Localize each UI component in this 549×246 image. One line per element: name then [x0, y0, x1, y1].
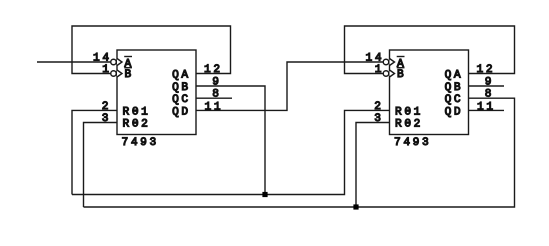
svg-text:B: B [397, 69, 406, 81]
wire: U1 R01 (pin 2) with drop to reset bus 1 [72, 110, 117, 194]
svg-text:QA: QA [445, 70, 464, 82]
svg-text:QD: QD [172, 106, 191, 118]
svg-text:1: 1 [375, 64, 384, 76]
svg-text:QC: QC [445, 94, 464, 106]
junction dot: U1 QB to reset bus 1 [262, 192, 267, 197]
clock wedge for A input of U1 [117, 59, 122, 66]
wire: U2 R02 (pin 3) drop to reset bus 2 [356, 123, 390, 208]
svg-text:R01: R01 [123, 106, 151, 118]
svg-text:8: 8 [485, 89, 494, 101]
svg-text:14: 14 [93, 52, 112, 64]
wire: external clock input to U1 pin 14 (A) [37, 61, 111, 63]
svg-text:12: 12 [204, 64, 223, 76]
svg-text:14: 14 [366, 52, 385, 64]
clock wedge for A input of U2 [390, 59, 395, 66]
svg-text:11: 11 [477, 102, 496, 114]
svg-text:R01: R01 [395, 106, 423, 118]
svg-text:1: 1 [102, 64, 111, 76]
svg-text:B: B [125, 69, 134, 81]
inverting bubble on pin 1 (B input) of U2 [383, 71, 389, 77]
svg-text:12: 12 [477, 64, 496, 76]
wire: U1 QA (pin 12) feedback loop over the top to U1 pin 1 (B) [72, 26, 231, 74]
svg-text:11: 11 [205, 102, 224, 114]
inverting bubble on pin 1 (B input) of U1 [111, 71, 117, 77]
inverting bubble on pin 14 (A input) of U1 [111, 59, 117, 65]
wire: U2 QD (pin 11) stub [469, 109, 505, 111]
svg-text:QA: QA [172, 70, 191, 82]
wire: U1 QC (pin 8) stub [196, 97, 232, 99]
counter IC U2 (7493) body [390, 50, 469, 135]
svg-text:QB: QB [445, 82, 464, 94]
svg-text:R02: R02 [123, 118, 151, 130]
junction dot: U2 R02 to reset bus 2 [353, 204, 358, 209]
svg-text:QB: QB [172, 82, 191, 94]
wire: reset bus 1 joining U1 R01, U1 QB and U2 R01 [72, 110, 390, 194]
svg-text:3: 3 [102, 113, 111, 125]
svg-text:R02: R02 [395, 118, 423, 130]
counter IC U1 (7493) body [117, 50, 196, 135]
inverting bubble on pin 14 (A input) of U2 [383, 59, 389, 65]
svg-text:QC: QC [172, 94, 191, 106]
clock wedge for B input of U2 [390, 70, 395, 77]
svg-text:8: 8 [212, 89, 221, 101]
wire: U2 QA (pin 12) feedback loop over the top to U2 pin 1 (B) [345, 26, 515, 74]
svg-text:7493: 7493 [394, 137, 431, 149]
wire: U1 QB (pin 9) down to reset bus 1 [196, 86, 265, 195]
svg-text:9: 9 [485, 77, 494, 89]
svg-text:QD: QD [445, 106, 464, 118]
wire: U1 QD (pin 11) up and across to U2 pin 14 (A) [196, 62, 384, 110]
svg-text:3: 3 [374, 113, 383, 125]
clock wedge for B input of U1 [117, 70, 122, 77]
wire: U2 QB (pin 9) stub [469, 85, 505, 87]
svg-text:2: 2 [102, 101, 111, 113]
wire: reset bus 2 joining U1 R02, U2 R02 and U2 QC [84, 98, 515, 207]
svg-text:9: 9 [212, 77, 221, 89]
svg-text:7493: 7493 [122, 137, 159, 149]
svg-text:2: 2 [374, 101, 383, 113]
wire: U1 R02 (pin 3) with drop to reset bus 2 [84, 123, 118, 208]
